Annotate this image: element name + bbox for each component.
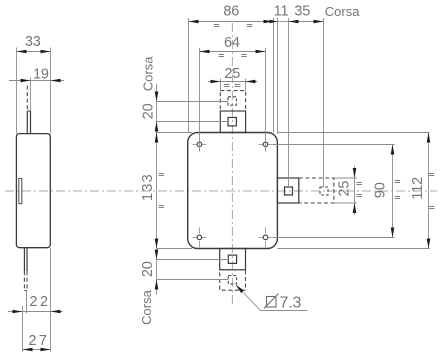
extension line bottom rod (26, 291, 28, 314)
bottom tab extended dashed (220, 270, 246, 290)
side view top rod (26, 111, 28, 134)
top tab extended dashed (220, 91, 245, 111)
hole top-right (259, 145, 273, 152)
svg-text:20: 20 (140, 103, 156, 119)
svg-text:19: 19 (33, 66, 49, 82)
dimension 25 right (334, 177, 357, 179)
right tab extended dashed (299, 178, 334, 203)
dimension 25 top (220, 79, 222, 91)
svg-text:35: 35 (294, 3, 310, 19)
svg-text:Corsa: Corsa (325, 4, 360, 19)
svg-text:20: 20 (140, 261, 156, 277)
svg-text:25: 25 (337, 181, 353, 197)
main body plate (188, 133, 278, 249)
dimension 33 (16, 48, 18, 134)
right tab (277, 178, 298, 203)
horizontal centerline (5, 190, 437, 192)
dimension 19 (9, 80, 64, 82)
side view latch slot (19, 178, 22, 203)
equal marks under 64 (219, 55, 247, 57)
dimension 20 corsa bottom-left (156, 250, 158, 295)
square symbol (267, 297, 277, 308)
svg-text:90: 90 (373, 182, 389, 198)
side view body (16, 134, 50, 248)
dimension 133 (157, 132, 193, 134)
equal marks 112 (429, 174, 434, 209)
equal marks under 86 (214, 25, 252, 27)
svg-text:11: 11 (274, 3, 289, 19)
svg-text:22: 22 (29, 294, 50, 310)
dimension 22 (22, 306, 24, 352)
right tab extended square hole dashed (320, 187, 328, 195)
svg-text:86: 86 (223, 3, 239, 19)
svg-text:133: 133 (140, 173, 156, 201)
dimension 86 (188, 18, 190, 133)
svg-text:112: 112 (410, 177, 426, 200)
equal marks under 25 (224, 85, 241, 87)
svg-text:Corsa: Corsa (139, 289, 154, 324)
equal marks 25 right (357, 183, 362, 197)
top tab square hole (228, 118, 236, 126)
side view top rod extended dashed (26, 86, 28, 112)
dimension 35 corsa (323, 18, 325, 187)
hole bottom-right (259, 227, 273, 247)
hole top-left (192, 145, 206, 152)
svg-text:25: 25 (224, 66, 240, 82)
dimension 20 corsa top-left (156, 84, 158, 138)
vertical centerline (231, 23, 233, 307)
svg-text:64: 64 (224, 35, 240, 51)
right tab square hole (285, 187, 293, 195)
dimension 90 (273, 144, 395, 146)
bottom tab square hole (228, 255, 236, 263)
side view bottom rod (23, 248, 25, 272)
bottom tab (220, 249, 246, 270)
hole bottom-left (192, 227, 206, 247)
dimension 112 (278, 132, 430, 134)
equal marks 133 (159, 174, 164, 208)
svg-text:33: 33 (25, 34, 41, 50)
svg-text:7.3: 7.3 (280, 295, 302, 312)
dimension 64 (199, 48, 201, 151)
svg-text:Corsa: Corsa (141, 56, 156, 91)
dimension 27 (23, 349, 51, 351)
bottom tab extended square hole dashed (228, 276, 236, 284)
dimension 11 (277, 18, 279, 134)
equal marks 90 (395, 181, 400, 199)
side view bottom rod extended dashed (23, 271, 25, 290)
svg-text:27: 27 (28, 333, 49, 349)
leader square 7.3 (238, 287, 261, 311)
top tab extended square hole dashed (228, 97, 236, 105)
top tab (220, 111, 245, 133)
